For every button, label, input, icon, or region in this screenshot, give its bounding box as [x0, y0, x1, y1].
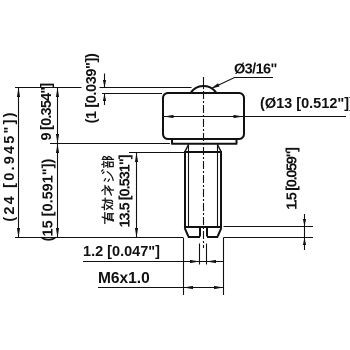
- svg-text:9 [0.354"]: 9 [0.354"]: [39, 83, 55, 141]
- head outline: [163, 93, 244, 139]
- kanji yuu: [102, 213, 113, 224]
- svg-text:13.5 [0.531"]: 13.5 [0.531"]: [118, 154, 134, 227]
- dimension 1.2 line: [83, 261, 224, 263]
- dimension 15 line: [57, 144, 59, 238]
- kanji kou: [102, 198, 113, 210]
- thread root right: [217, 145, 219, 227]
- centerline: [203, 77, 205, 248]
- dimension 13.5 line: [136, 153, 138, 238]
- slot extension left: [199, 244, 201, 265]
- slot left wall: [199, 228, 201, 237]
- dimension 1 arrows: [104, 74, 106, 88]
- label yuko neji-bu (effective thread) kanji: [102, 157, 114, 224]
- M6 extension left: [183, 238, 185, 296]
- thread end line: [184, 226, 222, 228]
- extension line tip bottom right: [224, 237, 314, 239]
- dimension 9 line: [57, 88, 59, 144]
- slot extension right: [206, 244, 208, 265]
- dimension 1.5 line: [304, 214, 306, 250]
- tip bottom right: [207, 236, 218, 238]
- M6 extension right: [223, 238, 225, 296]
- extension line thread start: [129, 152, 184, 154]
- svg-text:1.2 [0.047"]: 1.2 [0.047"]: [83, 244, 160, 260]
- extension line tip bottom left: [15, 237, 183, 239]
- svg-text:M6x1.0: M6x1.0: [98, 270, 150, 287]
- leader dia 3/16: [211, 78, 273, 89]
- slot right wall: [206, 228, 208, 237]
- svg-text:Ø3/16": Ø3/16": [234, 62, 277, 78]
- ball: [191, 86, 216, 92]
- thread crest left: [184, 152, 186, 228]
- dimension M6 line: [98, 287, 224, 289]
- tip chamfer right: [218, 228, 222, 236]
- extension line flange bottom: [50, 143, 170, 145]
- katakana ne: [102, 185, 114, 195]
- extension line head top: [102, 93, 162, 95]
- extension line ball top: [15, 87, 82, 89]
- extension line thread end right: [224, 226, 314, 228]
- katakana ji: [102, 170, 114, 182]
- thread root left: [188, 145, 190, 227]
- tip bottom left: [188, 236, 200, 238]
- neck chamfer right: [218, 145, 222, 152]
- svg-text:1.5 [0.059"]: 1.5 [0.059"]: [285, 147, 301, 210]
- neck chamfer left: [185, 145, 189, 152]
- thread crest right: [220, 152, 222, 228]
- svg-text:(1 [0.039"]): (1 [0.039"]): [84, 53, 100, 123]
- kanji bu: [102, 157, 114, 168]
- dimension 24 line: [18, 88, 20, 238]
- tip chamfer left: [185, 228, 189, 236]
- svg-text:(Ø13 [0.512"]): (Ø13 [0.512"]): [260, 96, 350, 112]
- svg-text:(24 [0.945"]): (24 [0.945"]): [2, 110, 18, 221]
- thread top line: [184, 151, 222, 153]
- flange: [171, 139, 237, 144]
- svg-text:(15 [0.591"]): (15 [0.591"]): [41, 159, 57, 242]
- dimension dia13 line: [163, 116, 346, 118]
